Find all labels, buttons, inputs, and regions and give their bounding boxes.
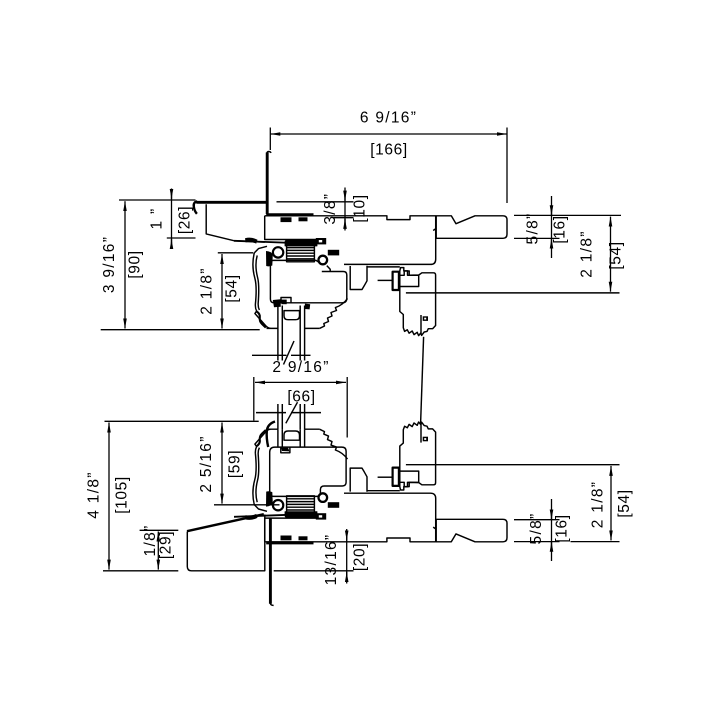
dim 4 1/8 line — [108, 423, 110, 570]
dim 1 / 3 9/16 shared top extension — [119, 199, 196, 201]
panel bottom curl — [270, 603, 273, 606]
svg-text:[66]: [66] — [287, 389, 315, 406]
dim 1/8 line — [157, 532, 159, 570]
svg-text:[54]: [54] — [616, 489, 633, 517]
sill apron outline — [187, 515, 264, 571]
svg-text:2 5/16”: 2 5/16” — [198, 435, 215, 492]
sill interlock hook (thick) — [267, 422, 275, 448]
bottom glass break line — [256, 412, 321, 414]
dim top 5/8 extensions — [514, 214, 621, 216]
panel top nub — [267, 152, 271, 154]
svg-text:2 9/16”: 2 9/16” — [272, 359, 329, 376]
sill cladding panel (thick vertical) — [269, 518, 272, 604]
dim 4 1/8 / 1/8 shared bottom extension — [103, 570, 178, 572]
svg-text:[16]: [16] — [554, 514, 571, 542]
svg-text:[105]: [105] — [114, 476, 131, 513]
dim 3/8 extension top — [277, 201, 354, 203]
head cladding panel (thick vertical) — [266, 153, 269, 215]
dim 2 5/16 line — [221, 423, 223, 504]
drip cap (thick) — [196, 201, 266, 204]
top sash chamber — [270, 260, 346, 302]
svg-text:5/8”: 5/8” — [528, 513, 545, 545]
dim left 2 1/8 top extension — [218, 252, 254, 254]
brickmould outline — [206, 204, 265, 242]
svg-text:[10]: [10] — [352, 194, 369, 222]
sill assembly (mirrored) — [234, 422, 620, 543]
svg-text:1/8”: 1/8” — [142, 525, 159, 557]
bottom glass setting U block — [284, 431, 300, 440]
sill apron slope (thick) — [187, 514, 264, 531]
dim top right 2 1/8 line — [610, 217, 612, 292]
top glass break zigzag — [284, 341, 295, 365]
dim 2 9/16 right extension — [346, 377, 348, 438]
bottom sash chamber (taller than mirror) — [270, 447, 346, 496]
svg-text:[29]: [29] — [158, 531, 175, 559]
dim bottom 5/8 line outside arrows — [551, 499, 553, 561]
svg-text:[54]: [54] — [608, 241, 625, 269]
svg-text:4 1/8”: 4 1/8” — [86, 471, 103, 518]
dim 2 5/16 bottom extension — [214, 504, 280, 506]
svg-text:[20]: [20] — [352, 543, 369, 571]
svg-text:[166]: [166] — [370, 142, 407, 159]
dim 13/16 bottom extension — [274, 570, 354, 572]
svg-text:6 9/16”: 6 9/16” — [360, 110, 417, 127]
svg-text:[26]: [26] — [177, 206, 194, 234]
dim 6 9/16 [166] line — [270, 133, 507, 135]
dim 13/16 line outside arrows — [346, 529, 348, 584]
top glass setting U block — [284, 311, 300, 320]
svg-text:3 9/16”: 3 9/16” — [101, 236, 118, 293]
glazing foot black blob right — [305, 304, 310, 310]
dim 2 5/16 / 4 1/8 shared top extension — [105, 420, 259, 422]
svg-text:1 ”: 1 ” — [149, 208, 166, 230]
dim left 2 1/8 line — [221, 254, 223, 329]
svg-text:[90]: [90] — [127, 250, 144, 278]
bottom glass channel verticals inside sash — [278, 429, 305, 447]
dimension texts — [86, 110, 634, 586]
glazing foot black blob — [273, 299, 281, 307]
top glass lines — [278, 329, 305, 361]
svg-text:[54]: [54] — [224, 274, 241, 302]
dim 3 9/16 line — [124, 201, 126, 328]
dim 3/8 line with outside arrows — [344, 188, 346, 231]
svg-text:[16]: [16] — [552, 215, 569, 243]
svg-text:[59]: [59] — [227, 450, 244, 478]
bottom glass break zigzag — [286, 402, 298, 423]
drip cap curl — [194, 202, 197, 214]
svg-text:2 1/8”: 2 1/8” — [199, 267, 216, 314]
dim 2 9/16 [66] line — [255, 381, 346, 383]
dim 1 bottom extension — [167, 237, 196, 239]
top sash chamber notch with black mark — [281, 298, 291, 303]
top glass channel verticals inside sash — [278, 306, 305, 329]
dim 2 9/16 left extension — [253, 377, 255, 421]
dim bottom right 2 1/8 line — [610, 466, 612, 541]
bottom sash chamber notch with black mark — [281, 447, 290, 453]
dim 3/8 extension bottom — [334, 217, 354, 219]
head assembly — [234, 215, 620, 336]
svg-text:3/8”: 3/8” — [322, 193, 339, 225]
dim 1 line outside arrows — [171, 189, 173, 247]
bottom glass lines — [278, 404, 305, 429]
insect screen line — [421, 337, 424, 423]
top glass break line — [252, 354, 311, 356]
svg-text:2 1/8”: 2 1/8” — [590, 481, 607, 528]
dim 6 9/16 left extension — [269, 128, 271, 151]
dim 6 9/16 right extension — [506, 128, 508, 204]
dim bottom 5/8 extensions — [514, 519, 560, 521]
dim 3 9/16 / 2 1/8 shared bottom extension — [101, 329, 260, 331]
svg-text:2 1/8”: 2 1/8” — [579, 230, 596, 277]
dim bottom right 2 1/8 bottom extension — [571, 541, 620, 543]
dim top 5/8 line outside arrows — [551, 196, 553, 258]
dimensions — [101, 128, 621, 584]
svg-text:13/16”: 13/16” — [323, 534, 340, 586]
dim 1/8 top extension — [140, 529, 179, 531]
svg-text:5/8”: 5/8” — [525, 213, 542, 245]
